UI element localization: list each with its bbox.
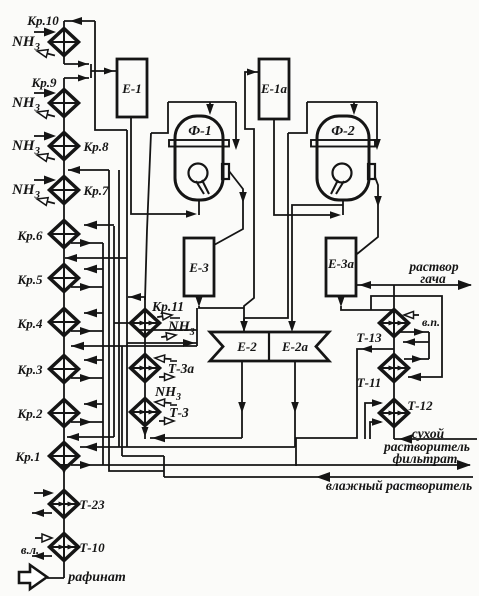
svg-text:Т-11: Т-11 <box>357 375 382 390</box>
bus line x114 <box>113 226 115 437</box>
wire jog riser x429 <box>428 332 430 359</box>
hollow arrow Кр.11 lower out <box>161 331 177 340</box>
cooler Т-11 <box>380 355 409 382</box>
label Е-1а <box>260 81 288 96</box>
label Ф-2 <box>331 124 355 139</box>
label Кр.1 <box>14 449 40 464</box>
label Кр.6 <box>16 228 43 243</box>
wire рафинат line <box>47 577 64 579</box>
wire Ф-1 top inlet arrow <box>206 102 214 115</box>
bus line x119 <box>118 170 120 447</box>
wire Кр.10 top inlet <box>64 17 95 25</box>
svg-text:Ф-1: Ф-1 <box>188 124 212 139</box>
heat exchanger Кр.3 <box>50 356 79 383</box>
label Кр.9 <box>30 75 57 90</box>
label Ф-1 <box>188 124 212 139</box>
svg-text:Т-3: Т-3 <box>169 405 189 420</box>
wire Т-23 inlet <box>34 489 54 497</box>
heat exchanger Кр.4 <box>50 309 79 336</box>
label Кр.8 <box>82 139 109 154</box>
label Кр.11 <box>151 299 184 314</box>
svg-text:в.п.: в.п. <box>422 315 440 329</box>
filter vessel Ф-2 <box>311 116 375 200</box>
wire Е-3а side line to right <box>371 296 442 381</box>
cooler Т-3а <box>131 355 160 382</box>
рафинат outlet big hollow arrow <box>19 565 47 589</box>
NH3 vapour outlet hollow arrow Кр.9 <box>36 108 56 120</box>
vessel Е-3 <box>184 238 214 296</box>
label растворитель (сухой) <box>383 439 470 454</box>
label Е-1 <box>121 81 142 96</box>
wire Ф-2 bottom outlet <box>342 200 344 215</box>
heat exchanger Кр.5 <box>50 265 79 292</box>
label сухой <box>412 426 445 441</box>
NH3 vapour outlet hollow arrow Кр.7 <box>36 195 56 207</box>
heat exchanger Кр.9 <box>50 90 79 117</box>
svg-text:Е-1а: Е-1а <box>260 81 288 96</box>
wire outlet tap Кр.4 <box>71 327 103 335</box>
wire - left column trunk main <box>63 78 65 578</box>
label NH3 Кр.11 <box>167 318 195 338</box>
svg-text:фильтрат: фильтрат <box>393 451 458 466</box>
wire Т-12 lower inlet <box>370 418 383 439</box>
filter vessel Ф-1 <box>169 116 229 200</box>
cooler Т-23 <box>50 491 79 518</box>
label Е-3а <box>327 256 355 271</box>
hollow arrow Т-3 upper in <box>155 398 172 406</box>
cooler Т-10 <box>50 534 79 561</box>
label Кр.4 <box>16 316 43 331</box>
wire Ф-2 top inlet arrow <box>350 102 358 115</box>
wire Е-2а outlet return line <box>80 446 295 448</box>
wire side entry into trunk y437 <box>67 433 114 441</box>
svg-text:рафинат: рафинат <box>67 570 126 585</box>
heat exchanger Кр.8 <box>50 133 79 160</box>
wire Е-3а bottom outlet <box>337 296 394 310</box>
label Т-3а <box>168 361 194 376</box>
cooler Т-13 <box>380 310 409 337</box>
vessel Е-1а <box>259 59 289 119</box>
wire Е-2а top inlet arrow <box>288 318 296 332</box>
label Т-12 <box>407 398 433 413</box>
wire inlet tap Кр.3 <box>84 356 103 365</box>
label влажный растворитель <box>326 478 472 493</box>
wire bus x103 main <box>102 243 104 465</box>
svg-text:Кр.10: Кр.10 <box>26 13 59 28</box>
svg-text:Кр.8: Кр.8 <box>82 139 109 154</box>
svg-text:Е-1: Е-1 <box>121 81 142 96</box>
wire side entry into trunk y258 <box>65 254 127 262</box>
wire riser x197 <box>196 308 198 346</box>
wire outlet tap Кр.2 <box>71 418 103 426</box>
wire Ф-1 nozzle to Е-3 <box>214 171 247 245</box>
svg-text:Е-2а: Е-2а <box>281 339 309 354</box>
label NH3 middle <box>154 385 181 403</box>
label Е-2 <box>236 339 257 354</box>
wire outlet tap Кр.6 <box>71 239 103 247</box>
wire branch to bottom left <box>296 345 394 466</box>
wire outlet tap Кр.3 <box>71 374 103 382</box>
wire Ф-2 top feed line <box>307 101 377 103</box>
wire Кр.11 left vertex to bus <box>114 322 131 324</box>
wire сухой растворитель line <box>394 434 477 443</box>
heat exchanger Кр.7 <box>50 177 79 204</box>
svg-text:Т-3а: Т-3а <box>168 361 194 376</box>
svg-text:Кр.9: Кр.9 <box>30 75 57 90</box>
wire Ф-1 loop right leg <box>232 102 240 150</box>
wire Т-10 outlet <box>32 552 52 560</box>
wire Е-1 outlet to Ф-1 bottom line <box>131 118 197 218</box>
wire - left column trunk upper <box>63 21 65 64</box>
wire inlet tap Кр.2 <box>84 400 103 409</box>
wire outlet Кр.1 to фильтрат line <box>71 461 103 469</box>
svg-text:Кр.7: Кр.7 <box>82 183 109 198</box>
wire фильтрат line <box>103 460 471 470</box>
bus line x127 <box>126 130 128 447</box>
vessel Е-3а <box>326 238 356 296</box>
heat exchanger Кр.2 <box>50 400 79 427</box>
wire Кр.11 split to Е-2 feed <box>127 339 197 347</box>
wire outlet tap Кр.5 <box>71 283 103 291</box>
cooler Т-12 <box>380 400 409 427</box>
label Кр.5 <box>16 272 43 287</box>
label в.л. <box>21 543 39 557</box>
wire inlet tap Кр.5 <box>84 265 103 274</box>
hollow arrow Т-3 lower out <box>159 417 174 424</box>
wire Е-2а bottom outlet <box>291 361 299 447</box>
heat exchanger Кр.11 <box>131 310 160 337</box>
NH3 vapour outlet hollow arrow Кр.10 <box>36 47 56 59</box>
hollow arrow в.л. into Т-10 <box>35 534 52 542</box>
svg-text:Е-3а: Е-3а <box>327 256 355 271</box>
svg-text:Кр.3: Кр.3 <box>16 362 43 377</box>
svg-text:Т-23: Т-23 <box>79 497 105 512</box>
label Е-2а <box>281 339 309 354</box>
label Кр.2 <box>16 406 43 421</box>
label NH3 Кр.8 <box>11 138 41 157</box>
wire right trunk <box>393 285 395 439</box>
wire Кр.9 top to junction <box>64 75 89 82</box>
cooler Т-3 <box>131 399 160 426</box>
label в.п. <box>422 315 440 329</box>
wire Е-3 bottom outlet <box>195 296 244 308</box>
wire Ф-2 loop right leg <box>373 102 381 150</box>
wire Ф-2 nozzle to Е-3а <box>357 177 382 254</box>
svg-text:Кр.1: Кр.1 <box>14 449 40 464</box>
wire Т-12 upper inlet <box>365 399 383 439</box>
NH3 inlet arrow Кр.8 <box>34 132 56 141</box>
wire middle trunk <box>142 297 149 439</box>
svg-text:Кр.2: Кр.2 <box>16 406 43 421</box>
hollow arrow в.п. into Т-13 <box>404 311 419 318</box>
svg-text:гача: гача <box>420 271 446 286</box>
NH3 inlet arrow Кр.10 <box>34 28 56 37</box>
wire Т-13 outlet jog <box>399 328 429 336</box>
wire inlet tap Кр.4 <box>84 309 103 318</box>
label фильтрат <box>393 451 458 466</box>
label Т-10 <box>79 540 105 555</box>
svg-text:влажный растворитель: влажный растворитель <box>326 478 472 493</box>
svg-text:Ф-2: Ф-2 <box>331 124 355 139</box>
heat exchanger Кр.10 <box>50 29 79 56</box>
label NH3 Кр.10 <box>11 34 41 53</box>
heat exchanger Кр.6 <box>50 221 79 248</box>
bus line x109 (влажный return) <box>109 170 164 471</box>
bus line x122 <box>121 346 123 456</box>
wire Е-1а outlet to Ф-2 bottom line <box>274 119 341 219</box>
hollow arrow Т-3а upper in <box>155 354 172 362</box>
svg-text:Т-10: Т-10 <box>79 540 105 555</box>
label NH3 Кр.7 <box>11 182 41 201</box>
label раствор <box>408 259 459 274</box>
wire bus from Кр.10 top <box>95 21 127 130</box>
wire Ф-1 loop left leg <box>151 102 168 133</box>
wire Ф-2 loop left leg <box>288 102 307 133</box>
hollow arrow Кр.11 upper out <box>157 311 173 320</box>
wire side entry into trunk y170 <box>68 166 109 174</box>
label Кр.10 <box>26 13 59 28</box>
vessel Е-1 <box>117 59 147 117</box>
wire раствор гача line <box>357 280 472 290</box>
wire Е-2 outlet to Т-3 trunk <box>150 434 242 442</box>
wire Е-1а inlet <box>244 69 259 333</box>
wire Ф-2 bottom tee to Е-2а <box>292 205 343 318</box>
svg-text:Т-12: Т-12 <box>407 398 433 413</box>
label Е-3 <box>188 260 209 275</box>
svg-text:Кр.4: Кр.4 <box>16 316 43 331</box>
label рафинат <box>67 570 126 585</box>
wire trunk arrow into Т-23 <box>60 464 68 475</box>
svg-text:Кр.5: Кр.5 <box>16 272 43 287</box>
wire riser x164 <box>163 456 165 477</box>
wire Ф-1 top feed line <box>168 101 236 103</box>
wire return line y456 <box>122 455 164 457</box>
NH3 inlet arrow Кр.9 <box>34 89 56 98</box>
wire Кр.11 top line <box>128 293 146 301</box>
label гача <box>420 271 446 286</box>
svg-text:Е-3: Е-3 <box>188 260 209 275</box>
wire side entry into trunk y346 (return line) <box>71 342 197 350</box>
wire line down to Кр.11 <box>145 133 151 300</box>
svg-text:Т-13: Т-13 <box>356 330 382 345</box>
wire Ф-1 bottom outlet <box>198 200 200 215</box>
heat exchanger Кр.1 <box>50 443 79 470</box>
label Т-11 <box>357 375 382 390</box>
label Т-3 <box>169 405 189 420</box>
label NH3 Кр.9 <box>11 95 41 114</box>
wire bus x288 down to Е-2 feed <box>244 133 288 318</box>
crystallizer Е-2 / Е-2а <box>210 332 329 361</box>
svg-text:Кр.6: Кр.6 <box>16 228 43 243</box>
label Т-23 <box>79 497 105 512</box>
wire junction to Е-1 <box>91 68 117 75</box>
label Т-13 <box>356 330 382 345</box>
wire inlet Кр.1 from return line <box>84 443 97 452</box>
wire inlet tap Кр.6 <box>84 221 114 230</box>
wire U-line to riser <box>138 329 197 331</box>
wire влажный растворитель line <box>164 472 473 482</box>
wire Т-23 outlet <box>32 509 52 517</box>
label Кр.3 <box>16 362 43 377</box>
wire jog return into trunk <box>403 338 429 346</box>
wire Е-2 bottom outlet <box>238 361 246 438</box>
svg-text:Е-2: Е-2 <box>236 339 257 354</box>
NH3 vapour outlet hollow arrow Кр.8 <box>36 151 56 163</box>
wire Е-2 top inlet arrow <box>240 318 248 332</box>
wire Кр.10 bottom to junction <box>64 61 89 68</box>
wire junction bracket <box>90 64 92 78</box>
NH3 inlet arrow Кр.7 <box>34 176 56 185</box>
hollow arrow Т-3а lower out <box>159 373 174 380</box>
label Кр.7 <box>82 183 109 198</box>
svg-text:Кр.11: Кр.11 <box>151 299 184 314</box>
wire Т-11 inlet jog <box>404 355 429 363</box>
